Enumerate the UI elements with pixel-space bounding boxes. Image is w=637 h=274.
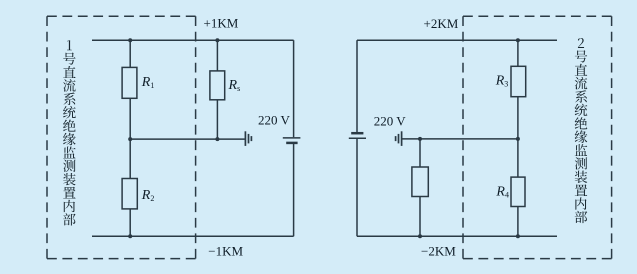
svg-text:220 V: 220 V [258, 112, 291, 127]
svg-text:220 V: 220 V [374, 114, 407, 129]
svg-text:+1KM: +1KM [204, 16, 239, 31]
svg-text:−2KM: −2KM [421, 244, 456, 259]
svg-text:+2KM: +2KM [424, 16, 459, 31]
svg-text:−1KM: −1KM [208, 243, 243, 258]
